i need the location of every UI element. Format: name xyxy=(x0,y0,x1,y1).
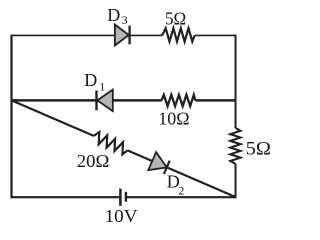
wire: right vertical lower segment xyxy=(235,164,237,198)
label D2 xyxy=(167,172,185,198)
label 5Ω (right resistor value) xyxy=(246,138,271,159)
wire: middle branch left segment (bold) xyxy=(11,99,162,102)
label 10V (battery value) xyxy=(105,206,138,226)
label 20Ω (diagonal resistor value) xyxy=(77,151,110,171)
wire: left vertical (node A top-left to node D bottom-left) xyxy=(10,35,12,199)
resistor 5Ω (top branch) xyxy=(162,28,194,41)
svg-text:1: 1 xyxy=(99,80,105,94)
resistor 10Ω (middle branch) xyxy=(162,95,196,106)
wire: diagonal upper segment (from left-middle node) xyxy=(12,100,94,135)
svg-text:10Ω: 10Ω xyxy=(158,109,189,129)
label D3 xyxy=(107,5,127,27)
diode D1 (cathode left, anode right; points left) xyxy=(97,90,113,112)
wire: diagonal lower segment (to bottom-right node) xyxy=(128,150,236,197)
wire: bottom left segment xyxy=(11,196,120,198)
svg-text:D: D xyxy=(107,5,120,25)
svg-text:2: 2 xyxy=(178,183,184,197)
svg-text:D: D xyxy=(84,70,97,90)
diode D2 (on diagonal, points down-right) xyxy=(148,152,169,174)
battery 10V (long plate left, short plate right) xyxy=(120,189,126,206)
wire: top branch left segment xyxy=(11,34,163,36)
resistor 20Ω (diagonal branch) xyxy=(94,132,128,154)
wire: top branch right segment xyxy=(195,34,237,36)
svg-text:5Ω: 5Ω xyxy=(165,8,186,28)
label 10Ω (middle resistor value) xyxy=(158,109,189,129)
wire: bottom right segment xyxy=(127,196,237,198)
resistor 5Ω (right vertical) xyxy=(230,128,240,164)
svg-text:10V: 10V xyxy=(105,206,138,226)
diode D3 (anode left, cathode right) xyxy=(115,25,130,46)
wire: middle branch right segment (bold) xyxy=(195,99,236,102)
wire: right vertical upper segment xyxy=(235,35,237,128)
svg-text:5Ω: 5Ω xyxy=(246,138,271,159)
svg-text:20Ω: 20Ω xyxy=(77,151,110,171)
label 5Ω (top resistor value) xyxy=(165,8,186,28)
label D1 xyxy=(84,70,105,94)
svg-text:3: 3 xyxy=(122,13,128,27)
